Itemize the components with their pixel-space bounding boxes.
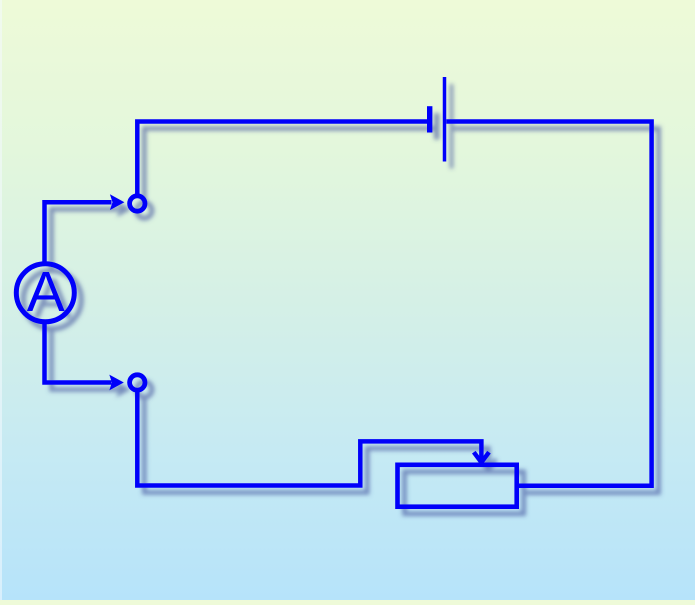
lower terminal node (open circle) — [130, 375, 145, 390]
upper terminal node (open circle) — [130, 196, 145, 211]
ammeter A1 body circle — [16, 264, 74, 322]
wire from lower terminal down, along bottom, riser and wiper feed — [137, 392, 481, 486]
svg-text:A: A — [27, 260, 65, 324]
battery cell positive plate (long thin bar) — [443, 77, 447, 162]
rheostat R (rectangle body) — [398, 465, 517, 507]
left edge light band (scan artifact) — [0, 0, 2, 600]
arrowhead into upper terminal — [110, 194, 125, 210]
wire from battery right along top, down right side, to rheostat right terminal — [446, 122, 651, 486]
battery cell negative plate (short thick bar) — [427, 106, 432, 132]
wire from ammeter top to upper terminal arrow — [45, 202, 112, 262]
wire from ammeter bottom to lower terminal arrow — [45, 323, 112, 383]
arrowhead into lower terminal — [109, 375, 124, 391]
rheostat wiper arrowhead — [474, 452, 489, 462]
wire top-left riser from upper terminal up and top wire to battery — [137, 122, 427, 196]
